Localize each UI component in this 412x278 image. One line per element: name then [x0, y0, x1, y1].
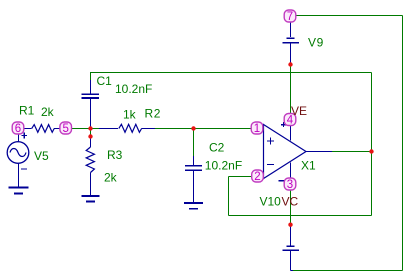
svg-text:V5: V5	[34, 149, 49, 163]
node 2	[252, 170, 264, 183]
wire: V9 junction down to node 4 (VE)	[290, 65, 292, 115]
svg-text:6: 6	[15, 123, 21, 135]
junction dot above V10	[288, 223, 292, 227]
svg-text:2k: 2k	[41, 105, 55, 119]
pin minus marker at node 3	[279, 180, 285, 182]
op-amp minus sign	[267, 164, 274, 166]
battery V10	[283, 226, 299, 271]
ground below V5	[9, 188, 29, 194]
resistor R1	[24, 125, 60, 133]
svg-text:7: 7	[287, 11, 293, 23]
voltage source V5	[7, 134, 29, 188]
svg-text:2k: 2k	[104, 171, 118, 185]
wire: right edge vertical	[402, 16, 404, 271]
svg-text:C2: C2	[209, 141, 225, 155]
svg-text:X1: X1	[301, 158, 316, 172]
svg-text:VE: VE	[291, 104, 307, 118]
node 7	[284, 10, 296, 23]
node 6	[12, 122, 24, 135]
ground below R3	[82, 196, 100, 202]
resistor R3	[86, 137, 94, 196]
svg-text:R2: R2	[145, 107, 162, 121]
svg-text:10.2nF: 10.2nF	[205, 159, 242, 173]
wire: C1 vertical stub green top	[90, 73, 92, 81]
resistor R2	[99, 124, 155, 132]
svg-text:V10: V10	[260, 195, 282, 209]
wire: main rail R2 to node1	[155, 128, 252, 130]
wire: node 3 (VC) down to V10 junction	[290, 190, 292, 225]
wire: right feedback vertical	[371, 73, 373, 216]
wire: top feedback horizontal from C1 to right vertical	[90, 72, 372, 74]
svg-text:R1: R1	[19, 104, 35, 118]
svg-text:2: 2	[254, 171, 260, 183]
node 5	[60, 122, 72, 135]
node 4	[284, 114, 296, 127]
svg-text:5: 5	[62, 123, 68, 135]
ground below C2	[184, 203, 203, 209]
V5 plus sign	[21, 133, 27, 139]
capacitor C2	[185, 156, 202, 203]
op-amp X1	[264, 125, 333, 179]
node 3	[284, 178, 296, 191]
wire: horizontal into node 2	[229, 176, 253, 178]
svg-text:V9: V9	[308, 36, 324, 50]
wire: node 7 to top right corner	[296, 15, 403, 17]
battery V9	[283, 22, 299, 63]
V5 minus sign	[21, 168, 27, 170]
junction dot above R3	[88, 134, 92, 138]
junction dot at node5/R2 rail and C1	[88, 126, 92, 130]
wire: output green segment	[332, 151, 372, 153]
wire: main rail node5 to R2	[72, 128, 100, 130]
svg-text:R3: R3	[107, 148, 123, 162]
wire: junction to R3 stub	[90, 129, 92, 138]
junction dot at op-amp output	[369, 149, 373, 153]
svg-text:1: 1	[254, 123, 260, 135]
svg-text:C1: C1	[97, 74, 113, 88]
junction dot at C2	[191, 126, 195, 130]
svg-text:1k: 1k	[123, 108, 137, 122]
wire: C2 vertical green upper	[193, 129, 195, 157]
wire: vertical up to inverting input level	[228, 177, 230, 216]
svg-text:3: 3	[287, 179, 293, 191]
capacitor C1	[82, 80, 100, 129]
wire: bottom feedback horizontal	[229, 215, 372, 217]
pin plus marker at node 4	[281, 122, 286, 127]
svg-text:VC: VC	[282, 195, 299, 209]
node 1	[251, 122, 263, 135]
junction dot below V9	[288, 62, 292, 66]
svg-text:10.2nF: 10.2nF	[115, 82, 152, 96]
op-amp plus sign	[267, 138, 274, 145]
wire: bottom wire from V10 to right edge	[292, 270, 403, 272]
